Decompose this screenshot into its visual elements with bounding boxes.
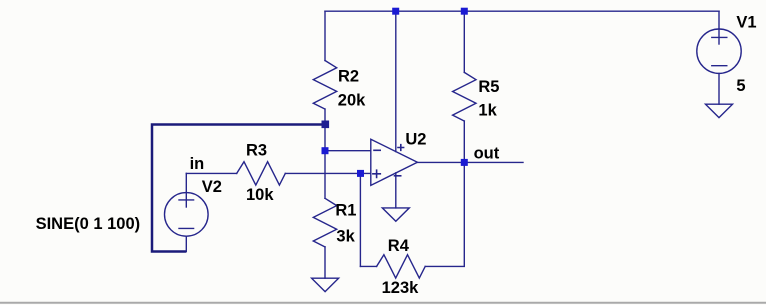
svg-text:5: 5 xyxy=(736,77,745,95)
svg-text:123k: 123k xyxy=(382,279,420,297)
svg-text:3k: 3k xyxy=(336,227,355,245)
svg-text:R4: R4 xyxy=(388,237,410,255)
svg-text:1k: 1k xyxy=(478,102,497,120)
svg-text:R1: R1 xyxy=(335,201,356,219)
svg-text:out: out xyxy=(474,144,500,162)
svg-text:20k: 20k xyxy=(338,91,366,109)
svg-text:V1: V1 xyxy=(736,14,756,32)
svg-text:R3: R3 xyxy=(246,142,267,160)
svg-text:in: in xyxy=(190,155,205,173)
svg-text:SINE(0 1 100): SINE(0 1 100) xyxy=(36,215,141,233)
svg-text:U2: U2 xyxy=(405,131,426,149)
svg-text:10k: 10k xyxy=(246,186,274,204)
svg-text:R2: R2 xyxy=(338,68,359,86)
svg-text:V2: V2 xyxy=(202,178,222,196)
svg-text:R5: R5 xyxy=(478,78,499,96)
